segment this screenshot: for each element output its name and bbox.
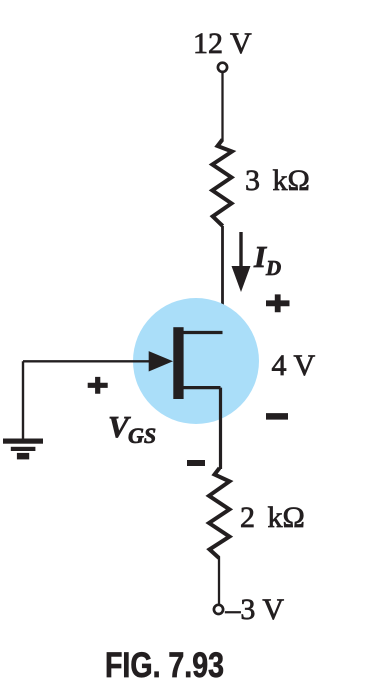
drain lead — [181, 331, 223, 334]
wire R1 to drain — [180, 226, 223, 333]
svg-text:4 V: 4 V — [272, 349, 316, 382]
minus sign (VDS -) — [266, 413, 288, 420]
gate arrowhead — [149, 351, 173, 371]
terminal -3V — [214, 605, 223, 614]
wire R2 to terminal — [218, 557, 220, 605]
current arrow ID — [239, 232, 242, 270]
svg-text:–3 V: –3 V — [224, 593, 284, 626]
ground wire — [22, 361, 24, 438]
svg-text:GS: GS — [128, 423, 156, 448]
plus sign (VDS +) — [266, 294, 290, 312]
svg-text:12 V: 12 V — [193, 27, 252, 60]
svg-text:I: I — [253, 239, 267, 274]
svg-text:D: D — [265, 256, 281, 280]
svg-text:FIG. 7.93: FIG. 7.93 — [105, 646, 224, 685]
resistor R1 — [212, 140, 232, 227]
source lead — [181, 386, 221, 389]
highlight circle — [133, 298, 259, 424]
ground symbol — [3, 439, 43, 444]
wire VDD to R1 — [221, 73, 223, 141]
svg-text:3 kΩ: 3 kΩ — [245, 164, 310, 197]
transistor Q1 JFET channel bar — [173, 327, 183, 399]
resistor R2 — [209, 468, 230, 558]
plus sign (VGS +) — [88, 377, 108, 394]
gate wire — [23, 360, 152, 362]
svg-text:2 kΩ: 2 kΩ — [240, 501, 305, 534]
minus sign (VGS -) — [187, 460, 205, 466]
wire source to R2 — [219, 388, 222, 469]
terminal VDD — [218, 63, 227, 72]
